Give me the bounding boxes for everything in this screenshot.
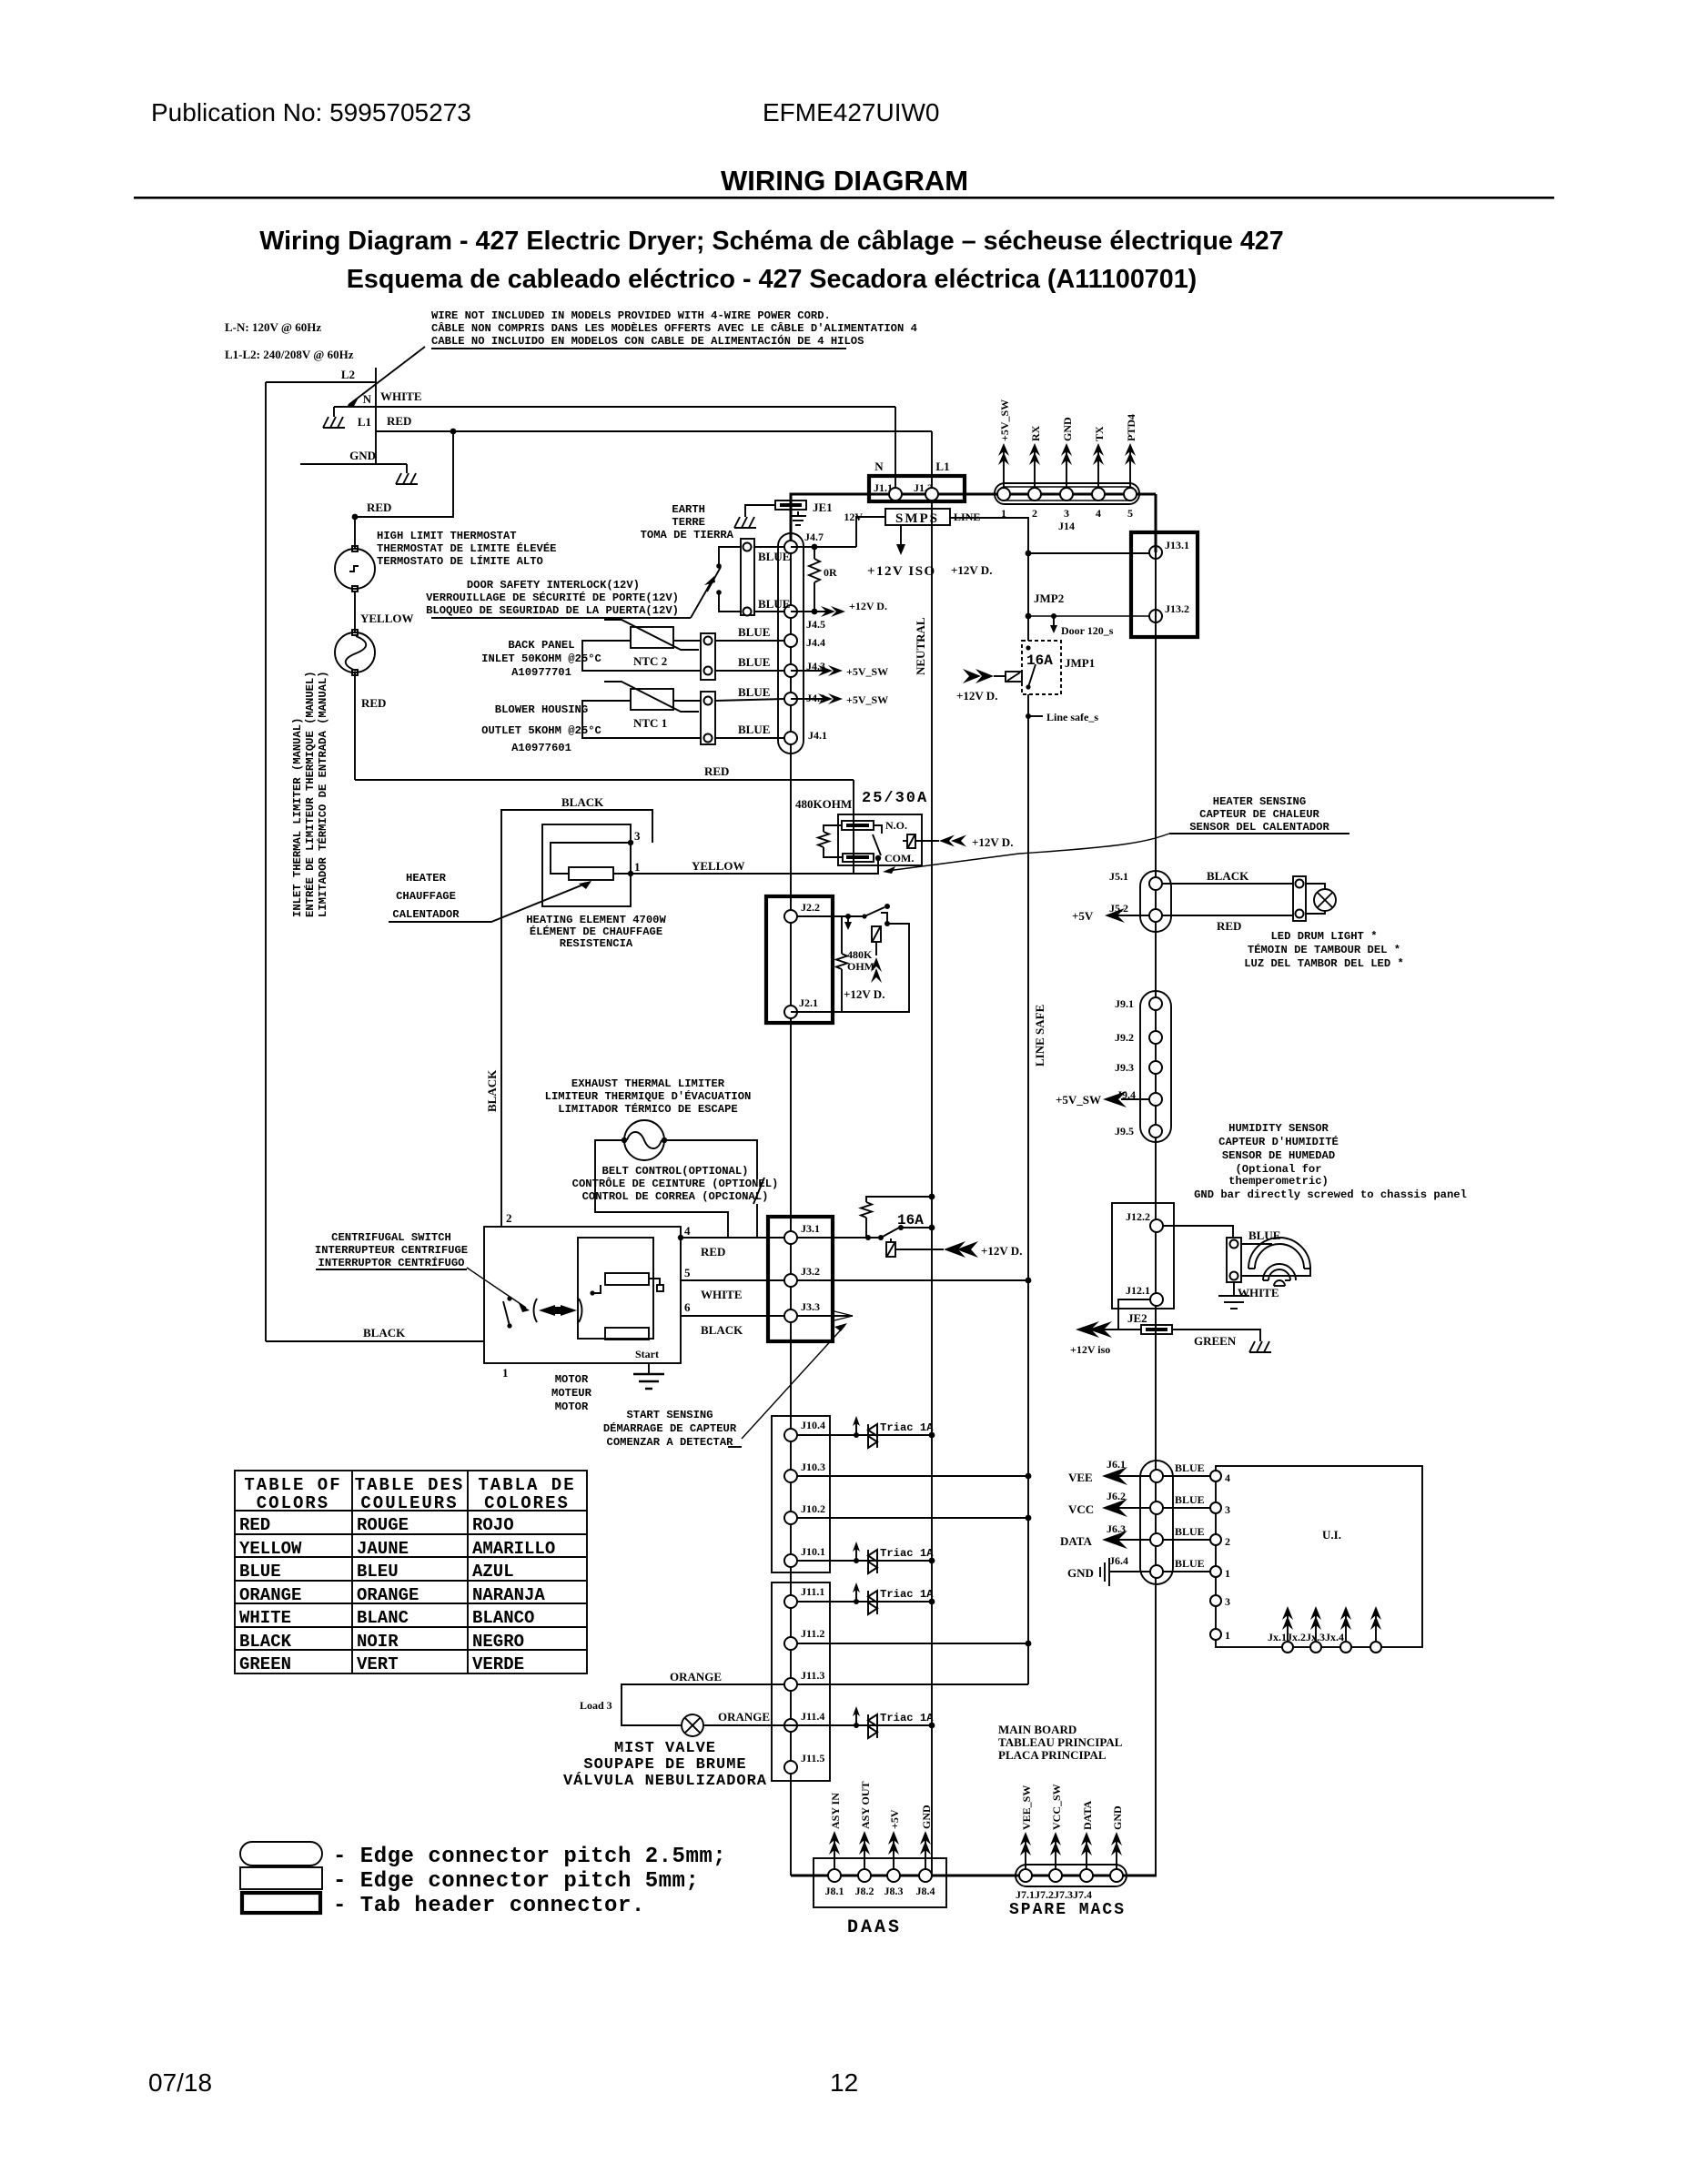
svg-text:BELT CONTROL(OPTIONAL): BELT CONTROL(OPTIONAL)	[602, 1165, 749, 1178]
tab header connector J1	[869, 476, 965, 501]
J4.3 +5V_SW arrow	[791, 670, 825, 672]
svg-text:JE2: JE2	[1127, 1311, 1147, 1325]
svg-text:ORANGE: ORANGE	[670, 1670, 722, 1683]
svg-text:MAIN BOARD: MAIN BOARD	[998, 1723, 1076, 1736]
J3.3 start sensing arrow	[797, 1315, 826, 1317]
svg-text:INLET 50KOHM @25°C: INLET 50KOHM @25°C	[481, 652, 601, 665]
svg-text:VERDE: VERDE	[472, 1654, 524, 1674]
svg-text:J3.1: J3.1	[801, 1222, 820, 1235]
svg-text:YELLOW: YELLOW	[360, 612, 414, 625]
svg-text:Start: Start	[635, 1348, 659, 1360]
wire: drop from L1 to thermostat chain	[355, 431, 453, 517]
svg-text:J9.5: J9.5	[1115, 1125, 1134, 1137]
J11 pins	[784, 1595, 797, 1608]
svg-text:MOTOR: MOTOR	[555, 1400, 589, 1413]
J3.2 wire to line safe	[797, 1279, 1028, 1281]
svg-text:+5V_SW: +5V_SW	[1056, 1093, 1101, 1107]
svg-text:BLACK: BLACK	[485, 1069, 499, 1112]
wire: N drop to J1.1	[895, 407, 896, 494]
centrifugal actuator bowtie	[539, 1305, 577, 1316]
relay switch blade	[874, 825, 882, 834]
junction on L1	[450, 429, 457, 435]
svg-text:NTC 2: NTC 2	[633, 654, 667, 668]
J10.4 triac wire	[797, 1434, 932, 1436]
svg-text:+12V ISO: +12V ISO	[867, 564, 936, 579]
svg-text:GREEN: GREEN	[239, 1654, 291, 1674]
svg-text:ASY OUT: ASY OUT	[859, 1781, 872, 1829]
svg-text:(Optional for: (Optional for	[1235, 1163, 1321, 1176]
J2 sense loop right	[791, 924, 909, 1012]
motor internal switch	[507, 1296, 511, 1300]
svg-text:YELLOW: YELLOW	[692, 859, 745, 873]
svg-text:J4.1: J4.1	[808, 729, 827, 742]
svg-text:RED: RED	[239, 1515, 270, 1535]
NTC1 thermistor	[631, 689, 673, 710]
svg-text:J12.2: J12.2	[1126, 1210, 1150, 1223]
svg-text:MOTOR: MOTOR	[555, 1373, 589, 1386]
svg-text:BLUE: BLUE	[1175, 1493, 1205, 1506]
svg-text:TERRE: TERRE	[672, 516, 705, 529]
J4.5 +12VD arrow	[791, 611, 828, 612]
svg-text:SPARE MACS: SPARE MACS	[1009, 1901, 1126, 1919]
svg-text:WIRE NOT INCLUDED IN MODELS PR: WIRE NOT INCLUDED IN MODELS PROVIDED WIT…	[431, 309, 831, 322]
svg-text:BLANC: BLANC	[357, 1608, 409, 1628]
svg-text:GND: GND	[1111, 1805, 1124, 1830]
svg-text:J4.7: J4.7	[804, 531, 824, 543]
svg-text:1: 1	[1001, 507, 1006, 520]
+12VD arrow at breaker	[944, 1241, 965, 1258]
svg-text:SENSOR DE HUMEDAD: SENSOR DE HUMEDAD	[1222, 1149, 1335, 1162]
svg-text:+12V D.: +12V D.	[956, 689, 997, 703]
svg-text:BLUE: BLUE	[738, 625, 770, 639]
svg-text:VCC: VCC	[1068, 1502, 1094, 1516]
svg-text:VERROUILLAGE DE SÉCURITÉ DE PO: VERROUILLAGE DE SÉCURITÉ DE PORTE(12V)	[426, 591, 679, 604]
+5V_SW arrow at J9.4	[1121, 1098, 1149, 1100]
J4 pins	[784, 541, 797, 553]
J2.2 sense wire	[797, 915, 864, 917]
left rail vertical	[265, 382, 267, 1341]
svg-text:J9.2: J9.2	[1115, 1031, 1134, 1044]
svg-text:DOOR SAFETY INTERLOCK(12V): DOOR SAFETY INTERLOCK(12V)	[467, 579, 640, 591]
J10.1 triac wire	[797, 1560, 932, 1562]
NTC2 loop wires	[582, 641, 701, 671]
J6 connector	[1140, 1461, 1173, 1584]
svg-text:DÉMARRAGE DE CAPTEUR: DÉMARRAGE DE CAPTEUR	[603, 1421, 737, 1435]
relay coil N.O.	[842, 821, 874, 830]
svg-text:J12.1: J12.1	[1126, 1284, 1150, 1297]
SPARE MACS pins J7.1-J7.4	[1019, 1869, 1032, 1882]
svg-text:L1-L2: 240/208V @ 60Hz: L1-L2: 240/208V @ 60Hz	[225, 348, 354, 361]
NTC1 loop wires	[582, 701, 701, 738]
heater box	[542, 824, 631, 906]
svg-text:BLUE: BLUE	[1175, 1557, 1205, 1570]
svg-text:COM.: COM.	[884, 852, 914, 864]
svg-text:VERT: VERT	[357, 1654, 399, 1674]
heater inner loop	[551, 843, 631, 874]
svg-text:12: 12	[830, 2068, 858, 2097]
svg-text:25/30A: 25/30A	[862, 790, 928, 807]
JMP1 dashed box	[1022, 641, 1061, 694]
note leader arrow to N wire	[349, 347, 425, 405]
svg-text:BLOWER HOUSING: BLOWER HOUSING	[495, 703, 588, 716]
J2 tab header box	[766, 896, 833, 1023]
svg-text:Triac 1A: Triac 1A	[880, 1588, 934, 1601]
svg-text:J11.5: J11.5	[801, 1752, 824, 1764]
white wire motor to J3.2	[681, 1279, 784, 1281]
power cord: L2 vertical	[375, 368, 377, 464]
table grid	[235, 1471, 587, 1673]
svg-text:OHM: OHM	[847, 960, 874, 973]
svg-text:J2.2: J2.2	[801, 901, 820, 914]
svg-text:RED: RED	[1217, 919, 1241, 933]
svg-text:WHITE: WHITE	[239, 1608, 291, 1628]
svg-text:1: 1	[1225, 1629, 1230, 1642]
svg-text:EARTH: EARTH	[672, 503, 705, 516]
svg-text:HEATER SENSING: HEATER SENSING	[1213, 795, 1306, 808]
svg-text:J8.3: J8.3	[884, 1885, 904, 1897]
heating element	[569, 867, 613, 880]
svg-text:WHITE: WHITE	[1238, 1286, 1279, 1299]
svg-text:3: 3	[1064, 507, 1069, 520]
svg-text:J9.3: J9.3	[1115, 1061, 1134, 1074]
J6 pins	[1150, 1470, 1163, 1482]
heater leader	[389, 883, 588, 922]
wire between thermostats	[354, 591, 356, 632]
svg-text:J13.1: J13.1	[1165, 539, 1189, 551]
exhaust thermal limiter circle	[624, 1120, 664, 1160]
J11.4 wire through lamp	[703, 1724, 932, 1726]
svg-text:+12V D.: +12V D.	[849, 600, 887, 612]
svg-text:5: 5	[684, 1266, 691, 1279]
NTC2 thermistor	[631, 627, 673, 648]
svg-text:DAAS: DAAS	[847, 1917, 902, 1938]
inlet thermal limiter circle	[335, 632, 375, 672]
svg-text:ORANGE: ORANGE	[239, 1585, 301, 1605]
svg-text:EFME427UIW0: EFME427UIW0	[763, 98, 940, 126]
svg-text:+12V D.: +12V D.	[951, 563, 992, 577]
svg-text:3: 3	[1225, 1503, 1230, 1516]
svg-text:J7.1J7.2J7.3J7.4: J7.1J7.2J7.3J7.4	[1016, 1888, 1092, 1901]
svg-text:3: 3	[634, 829, 641, 843]
svg-text:07/18: 07/18	[148, 2068, 212, 2097]
svg-text:BLACK: BLACK	[561, 795, 604, 809]
JMP1 breaker blade	[1026, 645, 1030, 650]
svg-text:L1: L1	[935, 460, 949, 473]
svg-text:BLACK: BLACK	[1207, 869, 1249, 883]
svg-text:THERMOSTAT DE LIMITE ÉLEVÉE: THERMOSTAT DE LIMITE ÉLEVÉE	[377, 541, 556, 555]
pin J1.1	[889, 488, 902, 500]
svg-text:J11.2: J11.2	[801, 1627, 824, 1640]
svg-text:CAPTEUR DE CHALEUR: CAPTEUR DE CHALEUR	[1199, 808, 1319, 821]
drum light lamp	[1306, 884, 1325, 889]
svg-text:J2.1: J2.1	[799, 996, 818, 1009]
svg-text:- Edge connector pitch 2.5mm;: - Edge connector pitch 2.5mm;	[333, 1845, 726, 1869]
svg-text:DATA: DATA	[1081, 1800, 1094, 1830]
mist valve lamp	[682, 1714, 703, 1736]
svg-text:5: 5	[1127, 507, 1133, 520]
svg-text:CHAUFFAGE: CHAUFFAGE	[396, 890, 456, 903]
svg-text:INLET THERMAL LIMITER (MANUAL): INLET THERMAL LIMITER (MANUAL)	[291, 718, 304, 917]
svg-text:Door 120_s: Door 120_s	[1061, 624, 1114, 637]
wire: N white horizontal	[334, 406, 895, 408]
svg-text:L1: L1	[358, 415, 371, 429]
SPARE MACS arrows	[1020, 1832, 1031, 1869]
480K fuse symbol	[872, 926, 881, 942]
start contact	[649, 1279, 660, 1285]
svg-text:J5.1: J5.1	[1109, 870, 1128, 883]
16A breaker blade	[881, 1227, 901, 1238]
svg-text:480K: 480K	[847, 948, 873, 961]
svg-text:BLUE: BLUE	[1175, 1525, 1205, 1538]
red wire motor to J3.1	[681, 1237, 784, 1239]
relay COM arrow leader	[887, 854, 1019, 871]
svg-text:LINE SAFE: LINE SAFE	[1033, 1005, 1046, 1067]
wire: red drop to yellow node	[853, 780, 854, 874]
svg-text:J11.4: J11.4	[801, 1710, 824, 1723]
svg-text:RX: RX	[1029, 425, 1042, 441]
svg-text:L2: L2	[341, 368, 355, 381]
motor ground	[648, 1363, 650, 1374]
svg-text:J10.2: J10.2	[801, 1502, 825, 1515]
svg-text:BLUE: BLUE	[239, 1562, 281, 1582]
svg-text:SMPS: SMPS	[895, 511, 939, 526]
svg-text:RESISTENCIA: RESISTENCIA	[560, 937, 633, 950]
svg-text:BACK PANEL: BACK PANEL	[508, 639, 574, 652]
svg-text:LIMITADOR TÉRMICO DE ENTRADA (: LIMITADOR TÉRMICO DE ENTRADA (MANUAL)	[316, 671, 329, 917]
ground symbol below JE1	[790, 511, 806, 525]
12VD fuse feed at JMP1	[1006, 672, 1022, 682]
J11.2 wire	[797, 1643, 1028, 1644]
thermostat HL circle	[335, 549, 375, 589]
svg-text:RED: RED	[704, 764, 729, 778]
wires NTC1 to J4	[715, 699, 784, 701]
svg-text:LIMITADOR TÉRMICO DE ESCAPE: LIMITADOR TÉRMICO DE ESCAPE	[558, 1102, 737, 1116]
main bus line top	[791, 493, 1156, 496]
VCC arrow	[1106, 1507, 1150, 1509]
heater sensing leader curve	[1019, 834, 1169, 854]
svg-text:YELLOW: YELLOW	[239, 1539, 302, 1559]
svg-text:HEATER: HEATER	[406, 872, 447, 885]
svg-text:JAUNE: JAUNE	[357, 1539, 409, 1559]
svg-text:2: 2	[1225, 1535, 1230, 1548]
svg-text:RED: RED	[387, 414, 411, 428]
svg-text:AMARILLO: AMARILLO	[472, 1539, 555, 1559]
svg-text:BLOQUEO DE SEGURIDAD DE LA PUE: BLOQUEO DE SEGURIDAD DE LA PUERTA(12V)	[426, 604, 679, 617]
J14 signal arrows up	[998, 443, 1009, 488]
ground symbol at N	[323, 417, 345, 428]
svg-text:EXHAUST THERMAL LIMITER: EXHAUST THERMAL LIMITER	[571, 1077, 725, 1090]
svg-text:480KOHM: 480KOHM	[795, 797, 852, 811]
wire: black from heater top to motor	[501, 810, 652, 1227]
svg-text:BLUE: BLUE	[738, 723, 770, 736]
wire: yellow from heater to relay COM	[631, 859, 878, 874]
DAAS box	[814, 1858, 946, 1907]
svg-text:BLUE: BLUE	[738, 655, 770, 669]
J2 sense switch blade	[864, 907, 884, 916]
svg-text:NARANJA: NARANJA	[472, 1585, 545, 1605]
0R resistor	[814, 547, 815, 559]
J3.1 wire to 16A breaker	[797, 1237, 881, 1239]
svg-text:TÉMOIN DE TAMBOUR DEL *: TÉMOIN DE TAMBOUR DEL *	[1248, 943, 1400, 956]
J12 box	[1112, 1203, 1174, 1309]
belt switch blade	[753, 1178, 764, 1204]
svg-text:TX: TX	[1093, 426, 1106, 441]
svg-text:TABLEAU PRINCIPAL: TABLEAU PRINCIPAL	[998, 1735, 1123, 1749]
svg-text:SOUPAPE DE BRUME: SOUPAPE DE BRUME	[583, 1756, 746, 1774]
svg-text:LUZ DEL TAMBOR DEL LED *: LUZ DEL TAMBOR DEL LED *	[1244, 957, 1404, 970]
svg-text:N.O.: N.O.	[885, 819, 907, 832]
svg-text:J3.3: J3.3	[801, 1300, 820, 1313]
svg-text:VCC_SW: VCC_SW	[1050, 1784, 1063, 1830]
DAAS pins J8.1-J8.4	[828, 1869, 841, 1882]
UI box	[1216, 1466, 1422, 1647]
JE1 edge connector	[775, 500, 806, 510]
start sensing leader	[742, 1326, 844, 1439]
svg-text:+5V_SW: +5V_SW	[998, 399, 1011, 441]
svg-text:CONTRÔLE DE CEINTURE (OPTIONEL: CONTRÔLE DE CEINTURE (OPTIONEL)	[572, 1177, 779, 1190]
svg-text:4: 4	[1225, 1471, 1230, 1484]
right main rail (LINE)	[1155, 494, 1157, 552]
wire into thermostat	[354, 517, 356, 549]
JE2 green wire to ground	[1172, 1330, 1260, 1341]
svg-text:RED: RED	[701, 1245, 725, 1259]
wire J5.1 to drum connector	[1162, 883, 1293, 885]
J14 pins	[997, 488, 1010, 500]
svg-text:Triac 1A: Triac 1A	[880, 1712, 934, 1724]
J11.1 triac wire	[797, 1601, 932, 1603]
wire: L1 red horizontal	[376, 430, 932, 432]
svg-text:PLACA PRINCIPAL: PLACA PRINCIPAL	[998, 1748, 1107, 1762]
svg-text:PTD4: PTD4	[1125, 414, 1137, 441]
svg-text:A10977601: A10977601	[511, 742, 571, 754]
triac symbol J10.4	[853, 1416, 877, 1448]
svg-text:LINE: LINE	[954, 511, 980, 523]
J9 pins	[1149, 997, 1162, 1010]
UI bottom pins with arrows	[1282, 1606, 1293, 1653]
wire J12.1 exit	[1118, 1299, 1150, 1330]
svg-text:2: 2	[1032, 507, 1037, 520]
svg-text:GREEN: GREEN	[1194, 1334, 1237, 1348]
line safe vertical below JMP1	[1027, 694, 1029, 1684]
line safe to J11.3 connection	[797, 1683, 1028, 1685]
svg-text:SENSOR DEL CALENTADOR: SENSOR DEL CALENTADOR	[1189, 821, 1329, 834]
svg-text:CAPTEUR D'HUMIDITÉ: CAPTEUR D'HUMIDITÉ	[1218, 1135, 1339, 1148]
svg-text:ORANGE: ORANGE	[718, 1710, 770, 1724]
UI left pins 4,3,2,1,3,1	[1210, 1471, 1221, 1481]
svg-text:ROUGE: ROUGE	[357, 1515, 409, 1535]
svg-text:+12V D.: +12V D.	[972, 835, 1013, 849]
svg-text:AZUL: AZUL	[472, 1562, 514, 1582]
J13 drop wire from LINE	[1028, 552, 1149, 554]
svg-text:COLORES: COLORES	[484, 1493, 570, 1513]
JE2 edge connector	[1141, 1325, 1172, 1334]
svg-text:MIST VALVE: MIST VALVE	[614, 1740, 716, 1757]
svg-text:MOTEUR: MOTEUR	[551, 1387, 592, 1400]
ground stub at N	[333, 407, 335, 417]
blue wires J6 to UI	[1163, 1475, 1216, 1477]
relay sense resistor	[824, 825, 842, 832]
J3 tab header box	[768, 1217, 833, 1341]
centrifugal leader	[467, 1268, 526, 1308]
belt loop left	[595, 1140, 728, 1238]
svg-text:J3.2: J3.2	[801, 1265, 820, 1278]
svg-text:ROJO: ROJO	[472, 1515, 514, 1535]
heater pin 1	[628, 871, 633, 876]
svg-text:Publication No: 5995705273: Publication No: 5995705273	[151, 98, 471, 126]
svg-text:NEUTRAL: NEUTRAL	[914, 617, 927, 675]
svg-text:+5V_SW: +5V_SW	[846, 665, 888, 678]
svg-text:GND: GND	[1067, 1566, 1094, 1580]
svg-text:+5V: +5V	[888, 1809, 901, 1829]
svg-text:ASY IN: ASY IN	[829, 1793, 842, 1829]
svg-text:J6.4: J6.4	[1109, 1554, 1128, 1567]
svg-text:CÂBLE NON COMPRIS DANS LES MOD: CÂBLE NON COMPRIS DANS LES MODÈLES OFFER…	[431, 321, 917, 335]
svg-text:NEGRO: NEGRO	[472, 1632, 524, 1652]
svg-text:WHITE: WHITE	[380, 389, 422, 403]
svg-text:RED: RED	[361, 696, 386, 710]
svg-text:JMP1: JMP1	[1065, 656, 1095, 670]
svg-text:BLUE: BLUE	[758, 597, 790, 611]
svg-text:BLACK: BLACK	[239, 1632, 292, 1652]
VEE arrow	[1106, 1475, 1150, 1477]
edge connector J14	[995, 483, 1139, 504]
heater pin 3	[628, 840, 633, 845]
svg-text:BLUE: BLUE	[1175, 1461, 1205, 1474]
SMPS 12V wire to J4.7 node	[856, 517, 885, 547]
svg-text:+5V: +5V	[1072, 909, 1094, 923]
SMPS +12V ISO arrow	[900, 525, 902, 546]
DAAS arrows	[829, 1831, 840, 1869]
svg-text:VEE: VEE	[1068, 1471, 1093, 1484]
breaker fuse	[886, 1242, 895, 1257]
svg-text:CENTRIFUGAL SWITCH: CENTRIFUGAL SWITCH	[331, 1231, 451, 1244]
svg-text:J11.3: J11.3	[801, 1669, 824, 1682]
bottom bus	[791, 1875, 1157, 1877]
belt switch wire right	[664, 1140, 757, 1179]
SPARE MACS connector	[1016, 1865, 1127, 1886]
svg-text:BLUE: BLUE	[738, 685, 770, 699]
svg-text:J9.1: J9.1	[1115, 997, 1134, 1010]
svg-text:+5V_SW: +5V_SW	[846, 693, 888, 706]
svg-text:- Tab header connector.: - Tab header connector.	[333, 1894, 645, 1918]
drum light connector 5mm	[1293, 876, 1306, 921]
svg-text:0R: 0R	[824, 566, 837, 579]
svg-text:themperometric): themperometric)	[1228, 1175, 1329, 1188]
svg-text:16A: 16A	[1026, 652, 1053, 669]
svg-text:J13.2: J13.2	[1165, 602, 1189, 615]
svg-text:L-N: 120V @ 60Hz: L-N: 120V @ 60Hz	[225, 320, 321, 334]
ground symbol earth	[734, 517, 756, 528]
svg-text:2: 2	[506, 1211, 512, 1225]
pin J1.2	[925, 488, 938, 500]
+12V iso arrow	[1101, 1329, 1118, 1330]
svg-text:J10.1: J10.1	[801, 1545, 825, 1558]
humidity connector 5mm	[1227, 1238, 1241, 1282]
wire: GND drop	[406, 464, 408, 473]
edge connector J9	[1140, 991, 1171, 1142]
svg-text:J11.1: J11.1	[801, 1585, 824, 1598]
edge connector J4	[778, 533, 804, 753]
wire: red down from limiter	[354, 672, 356, 780]
svg-text:TERMOSTATO DE LÍMITE ALTO: TERMOSTATO DE LÍMITE ALTO	[377, 554, 543, 568]
main vertical rail (J4/J2/J3/J10/J11)	[790, 493, 793, 548]
SMPS box	[885, 509, 950, 525]
humidity sensor arcs	[1248, 1238, 1310, 1286]
svg-text:GND bar directly screwed to ch: GND bar directly screwed to chassis pane…	[1194, 1188, 1467, 1201]
svg-text:LIMITEUR THERMIQUE D'ÉVACUATIO: LIMITEUR THERMIQUE D'ÉVACUATION	[545, 1089, 752, 1103]
svg-text:HUMIDITY SENSOR: HUMIDITY SENSOR	[1228, 1122, 1329, 1135]
svg-text:RED: RED	[367, 500, 391, 514]
